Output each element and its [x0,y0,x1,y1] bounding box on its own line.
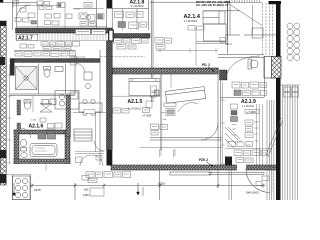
kitchen counter A2.1.6 [55,91,79,110]
wire dashed verticals right of room [263,3,273,56]
wire partition vertical x38.5 [38,64,40,95]
label boxes on band W1 [76,30,91,35]
rotated dim texts middle bottom [160,149,176,157]
annotation boxes A2.1.9 left column [231,104,238,109]
wire top room A2.1.8 inner horizontal [112,8,149,10]
svg-text:5/4B 2/0/0/2: 5/4B 2/0/0/2 [246,192,260,195]
annotation boxes cluster right middle dense [232,82,240,88]
squiggles above bottom-right wall [236,153,267,161]
dim horizontal in A2.1.4 room [156,49,218,53]
wall W4 main hatched band middle [112,68,218,74]
annotation boxes above bottom-right wall [228,142,236,147]
dim vertical left x9.5 [7,64,11,163]
fixtures middle room x75-100 [84,72,92,80]
wall finish strip below W1 [16,33,112,40]
wire lintel lines above door right [218,55,264,58]
annotation boxes near kitchen top [82,176,89,181]
staircase break line diagonal [266,118,283,157]
wire horizontal y11 top right [203,10,240,12]
window sill rectangle below bottom wall [170,172,211,175]
label PD.2 with leader [202,63,214,72]
wire partition horizontal y94 [10,94,75,96]
arc decor middle room [178,103,198,112]
label +7.000 right [245,110,259,114]
wire horizontal y138 middle [150,138,222,140]
door arc top-left [17,5,31,19]
svg-text:1000: 1000 [158,181,165,185]
room label A2.1.7 [17,34,38,41]
dim verticals bottom-left room [33,96,46,171]
squiggles x70-85 y56-64 [71,58,84,63]
wall strip A2.1.6 inner left lower [17,123,21,132]
svg-text:PZK 2: PZK 2 [199,158,208,162]
horizontal line y96 under bed room [112,95,160,97]
vertical line x95.5 [95,113,97,152]
dimension small arrow bottom middle [137,183,143,196]
horizontal ticks row above top-left band [17,26,107,28]
staircase top edge [281,84,300,86]
wire vertical x17 top [16,0,18,28]
annotation boxes bottom right small pair [262,176,269,181]
svg-text:5 x 20.85m2: 5 x 20.85m2 [131,5,145,8]
bathroom wall bottom band [14,159,70,164]
squiggles below W3 [115,41,147,48]
annotation box bottom center rect [90,188,104,196]
annotation boxes cluster A2.1.8 room [115,12,124,18]
wc room fixtures [44,69,50,77]
wall black block left edge y57 [0,57,5,65]
wire right room outline top [225,3,276,41]
white shaft box left of pier [264,57,272,79]
small fixtures A2.1.6 upper [42,100,49,105]
bathtub [30,144,57,157]
wire bottom vertical x75 [74,183,76,200]
annotation boxes under A2.1.4 [188,26,195,31]
wire room edge x148.5 [148,0,150,30]
wall left-edge black block mid [0,150,7,158]
door arc A2.1.6 [21,128,31,138]
squiggles A2.1.5 bottom [115,109,149,112]
furniture group [13,11,265,200]
svg-text:300: 300 [84,187,89,191]
annotation boxes top-left tiny [14,1,19,4]
annotation box clusters [14,1,299,196]
squiggles A2.1.9 column [232,122,259,145]
door arc at wall W2 bottom [95,141,105,151]
shelf unit left of wall W2 [74,129,92,141]
dim line top strip [13,4,60,8]
wire partition vertical x100 [99,50,101,165]
sink bottom room [21,153,27,158]
wall W1 horizontal band top-left (stippled) [16,28,113,33]
bathroom wall right strip [65,130,70,164]
svg-text:4 x 24.35m2: 4 x 24.35m2 [128,108,142,111]
diagonal hatch marks middle right [225,127,240,148]
svg-text:A2.1.6: A2.1.6 [29,124,44,130]
dimension line bottom main [30,184,265,188]
tiny text squiggles clusters [16,5,266,181]
wall left-edge black cap top [0,21,7,26]
extra dimension lines for density [7,3,272,199]
wall W8 right vertical black bar upper [276,1,281,57]
wire bottom area vertical x160 [159,170,161,200]
bed A2.1.5 [129,79,160,96]
bathroom wall left strip [14,130,19,164]
door arc right middle (A2.1.4 entry) [227,56,260,74]
squiggles A2.1.8 room [116,14,145,25]
wire wall edge x218 vertical [218,68,221,166]
wire top edge line [0,1,230,3]
svg-text:A2.1.5: A2.1.5 [128,99,143,105]
door arc bottom right big [246,169,270,193]
box in top right room [252,28,263,38]
lines above bottom wall left-middle [75,151,104,153]
wire bottom area vertical x218 [217,170,219,188]
squiggles right middle cluster [234,85,266,93]
annotation boxes A2.1.5 bottom row [113,108,121,113]
door opening gap bottom right wall [237,164,246,171]
wire vertical x12.5 dimension top-left [11,0,13,30]
toilet bottom room [21,139,27,147]
annotation boxes below W3 [114,38,122,43]
squiggles middle room [152,113,167,133]
wire diagonal in top right room [229,4,263,26]
squiggles right of 150 [157,40,171,47]
label PZK 2 with leader [199,158,213,167]
wall pier left below W5 [10,59,15,76]
annotation boxes right edge grid [284,87,291,92]
dim horizontal y150 right [225,148,272,150]
squiggles row y52 [16,53,75,54]
nightstand [155,90,160,96]
wall W3 horizontal band (stippled) right of W2 [113,34,150,39]
wall W2 vertical bottom black segment [107,150,113,166]
annotation boxes row y51 [15,52,22,57]
svg-text:+7.000: +7.000 [142,113,152,117]
wardrobe A2.1.4 right [203,11,225,24]
wall W7 bottom main hatched band [111,165,280,170]
wire horizontal y8.5 upper middle [73,8,97,10]
staircase treads right of bar [283,85,298,200]
dim vertical x196 upper [195,28,197,66]
circle chain right side [287,23,300,61]
svg-text:A2.1.7: A2.1.7 [18,36,33,42]
wire vertical x227 dim [227,4,229,54]
svg-text:SA +900 GD 30 dB(A) VY: SA +900 GD 30 dB(A) VY [196,3,229,7]
wire vertical x264 [264,56,266,97]
wire partition vertical x65.5 [65,64,67,95]
dining table with chairs [79,103,102,112]
bathroom wall top band [14,130,70,134]
annotation boxes cluster A2.1.7 room [41,42,48,47]
thin partition lines [0,0,276,200]
svg-text:+7.000: +7.000 [247,110,257,114]
annotation boxes cluster upper-middle (x75-106) [84,3,92,8]
wire partition vertical x152 [152,0,154,102]
wall W5 thin band left (window wall) [10,59,100,63]
sofa A2.1.4 (tilted) [165,87,205,104]
washing machines A2.1.6 bottom [38,133,46,139]
stove 4 burners kitchen bottom-left [13,176,31,200]
partition verticals top-left rooms [38,3,66,28]
squiggles top-left room [42,44,71,49]
wire kitchen counter edge [13,175,31,200]
wire horizontal y50.5 over boxes [14,50,75,52]
shower top-left room [16,67,38,90]
wall strip A2.1.6 right [66,95,71,137]
door arc bottom middle pair [80,155,103,166]
wall W2 edge lines upper gap [107,9,113,29]
wire partition vertical x75 [74,55,76,95]
wire ruler tick row top right [225,0,262,3]
annotation boxes left column x150 [151,86,157,91]
wire vertical x96.5 top [96,0,98,28]
wall W2 junction open box [109,30,114,41]
wall W8 right vertical black bar lower [276,78,281,200]
annotation boxes bottom middle cluster [86,172,94,178]
squiggles bottom middle cluster [88,174,130,181]
squiggles upper middle [77,5,104,32]
corridor verticals bottom right [229,171,232,200]
kitchen counter top and bottom lines [7,175,31,200]
small table right area [250,60,258,68]
dim vertical right of A2.1.4 [221,82,225,164]
svg-text:4 x 49.05m2: 4 x 49.05m2 [184,20,198,23]
corridor wall lines right middle [257,104,263,165]
wall W2 vertical black top segment [107,0,113,9]
wardrobe lower part [204,24,227,41]
corner black square top-left [0,0,3,2]
svg-text:4 x 20.2m2: 4 x 20.2m2 [242,105,254,108]
horizontal line y147.5 middle [140,147,222,149]
svg-text:2150: 2150 [83,193,89,197]
wire dashed y57 [100,56,145,58]
svg-text:2275: 2275 [34,188,41,192]
svg-text:PD. 2: PD. 2 [202,63,210,67]
wall strip A2.1.6 inner left upper [17,100,21,115]
svg-text:PDL 2: PDL 2 [225,43,232,46]
wall hatched pier right [272,57,282,79]
wall finish strip cell ticks [40,33,109,40]
annotation boxes left mid between rooms [48,124,55,129]
staircase treads left of bar [266,85,300,200]
wall left-edge black block bottom [0,174,7,183]
wire vertical x252 in room [252,5,254,35]
door arc A2.1.9 left [201,123,218,140]
annotation boxes middle room small [166,109,175,116]
svg-text:1.172: 1.172 [31,120,37,122]
wall W2 vertical main segment [107,41,113,150]
dim line y112.5 left-middle [73,112,106,114]
wall pier black at x220 [220,70,228,80]
sink A2.1.6 upper [24,101,30,109]
wire A2.1.8 room partitions [123,9,138,31]
door bowtie mark A2.1.6 [40,104,52,113]
wire horizontal y97 right [220,97,264,99]
wall W8 top cap [269,1,282,4]
wall dark block bottom near x225 [225,157,232,166]
dim vertical middle x171 [170,74,172,88]
small dark arrow bottom left area [13,183,16,196]
partition vertical x160 middle rooms [160,74,162,150]
wall left-edge crosshatch strip [0,21,6,185]
annotation boxes right of x150 top [155,38,163,44]
lintel lines y42 [196,42,228,44]
